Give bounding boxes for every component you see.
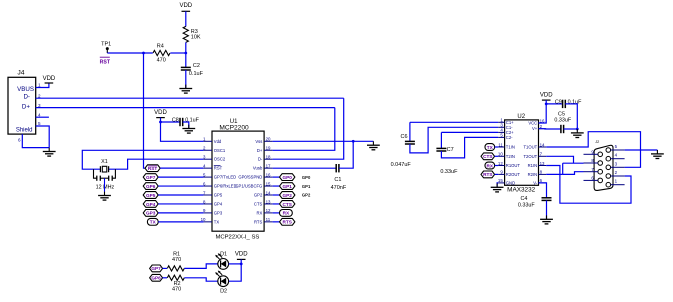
- wire CTS flag to U2: [495, 155, 499, 157]
- wire U2 V+ to C5: [539, 128, 561, 130]
- svg-text:Shield: Shield: [16, 128, 33, 134]
- wire J4 pin1 to VDD: [36, 83, 49, 88]
- op IC U1 MCP2200 body: [212, 119, 264, 241]
- ground at C8: [182, 125, 195, 134]
- net flag RST at U1 pin4: [145, 165, 160, 172]
- wire TX flag to U2: [495, 146, 499, 148]
- wire C6 bottom to U2 C1-: [410, 127, 498, 153]
- capacitor C2: [181, 66, 191, 68]
- svg-text:D-: D-: [258, 157, 263, 162]
- label C6 value: [391, 134, 412, 168]
- net flag GP6 at LEDs: [150, 274, 163, 281]
- wire GP7 to R1: [163, 267, 167, 269]
- net flag RTS at U1 right: [280, 218, 295, 225]
- net label RST (purple): [100, 57, 111, 65]
- svg-text:RTS: RTS: [483, 172, 492, 177]
- svg-text:470nF: 470nF: [331, 185, 347, 191]
- wire T1OUT to DB9 pin3: [546, 132, 640, 168]
- svg-text:OSC1: OSC1: [214, 148, 226, 153]
- svg-text:17: 17: [266, 163, 271, 168]
- svg-text:VCC: VCC: [528, 121, 537, 126]
- U2 pin stubs numbers names left: [498, 118, 521, 186]
- label C7 value: [440, 147, 458, 175]
- wire U1 to GP0 flag: [273, 176, 280, 178]
- svg-text:20: 20: [266, 137, 271, 142]
- wire VDD down to D2: [229, 259, 242, 281]
- svg-text:12: 12: [498, 161, 503, 166]
- wire to DB9 pin7: [563, 172, 584, 175]
- ground at C9/C5: [571, 129, 584, 138]
- svg-text:GP0: GP0: [283, 175, 293, 180]
- ground at C2: [179, 85, 192, 94]
- IC U2 MAX3232 body: [505, 114, 539, 194]
- svg-text:470: 470: [172, 286, 181, 292]
- wire to DB9 pin8: [563, 162, 584, 164]
- svg-text:13: 13: [540, 161, 545, 166]
- wire RX flag to U2: [495, 165, 499, 167]
- svg-text:GP4: GP4: [214, 201, 223, 206]
- svg-text:D1: D1: [220, 251, 227, 257]
- svg-text:0.047uF: 0.047uF: [391, 162, 412, 168]
- svg-text:C5: C5: [558, 111, 565, 117]
- wire GP6 flag to U1: [158, 185, 203, 187]
- wire GP6 to R2: [163, 277, 167, 279]
- VDD power symbol at J4 pin1: [43, 76, 56, 83]
- svg-text:RST: RST: [214, 166, 223, 171]
- svg-text:Vss: Vss: [255, 139, 262, 144]
- svg-text:GND: GND: [506, 180, 515, 185]
- svg-text:C6: C6: [400, 134, 407, 140]
- wire U2 V- to C4: [539, 183, 547, 198]
- wire C9 to ground junction: [565, 104, 577, 129]
- svg-text:J4: J4: [17, 70, 24, 77]
- ground at DB9 pin5: [651, 150, 664, 159]
- wire crystal left bracket: [94, 169, 97, 178]
- svg-text:0.33uF: 0.33uF: [440, 169, 458, 175]
- svg-text:GP3: GP3: [214, 210, 223, 215]
- wire TX flag to U1: [158, 221, 203, 223]
- svg-text:TP1: TP1: [101, 41, 111, 47]
- svg-text:C2: C2: [193, 63, 200, 69]
- wire T2OUT down: [546, 156, 573, 163]
- svg-text:11: 11: [266, 217, 271, 222]
- svg-text:V+: V+: [532, 126, 538, 131]
- wire RTS flag to U2: [495, 173, 499, 175]
- svg-text:6: 6: [18, 137, 21, 142]
- svg-text:GP5: GP5: [214, 193, 223, 198]
- capacitor C7: [436, 147, 446, 149]
- svg-text:Vdd: Vdd: [214, 139, 222, 144]
- svg-text:RST: RST: [100, 59, 111, 65]
- wire U1 to GP1 flag: [273, 185, 280, 187]
- svg-text:GP6/RxLED: GP6/RxLED: [214, 184, 237, 189]
- DB9 left column pins 9-6: [584, 150, 603, 183]
- wire C6 top lead: [409, 122, 411, 141]
- test point TP1: [101, 41, 111, 53]
- svg-text:VBUS: VBUS: [17, 86, 34, 93]
- svg-text:RTS: RTS: [283, 220, 292, 225]
- wire crystal right bracket: [112, 169, 115, 178]
- load capacitor left: [97, 176, 101, 181]
- svg-text:MCP22XX-I_ SS: MCP22XX-I_ SS: [215, 234, 259, 240]
- wire pin8-pin7 tie vertical: [562, 163, 564, 174]
- ground at J4: [43, 148, 56, 157]
- LED D1: [215, 253, 228, 269]
- net flag RTS at U2: [481, 171, 495, 178]
- net flag CTS at U2: [481, 153, 495, 160]
- svg-text:15: 15: [498, 178, 503, 183]
- svg-text:R1OUT: R1OUT: [506, 163, 521, 168]
- svg-text:GP7: GP7: [146, 175, 156, 180]
- load capacitor right: [109, 176, 113, 181]
- svg-text:RX: RX: [487, 163, 494, 168]
- net flag RX at U2: [485, 162, 495, 169]
- capacitor C5: [560, 125, 562, 133]
- label R3 value: [191, 29, 201, 41]
- svg-text:VDD: VDD: [235, 252, 248, 258]
- svg-text:C4: C4: [520, 196, 527, 202]
- svg-text:GP1: GP1: [302, 184, 311, 189]
- wire C2 to ground: [185, 70, 187, 88]
- svg-text:C1: C1: [334, 177, 341, 183]
- wire RST vertical down to RST flag: [144, 53, 147, 168]
- wire GP7 flag to U1: [158, 176, 203, 178]
- VDD power symbol at LEDs: [235, 252, 248, 260]
- LED D2: [215, 271, 228, 287]
- wire D1 to VDD: [229, 263, 242, 265]
- ground at U2 GND: [491, 183, 504, 192]
- U2 pin stubs numbers names right: [523, 118, 546, 185]
- wire C5 to ground junction: [564, 128, 578, 130]
- wire VDD stub: [160, 118, 162, 122]
- wire J4 pin4 stub: [36, 116, 49, 118]
- crystal X1: [100, 159, 108, 172]
- label C2 value: [189, 63, 204, 77]
- junction dot D1/VDD: [240, 263, 243, 266]
- net name labels GP0 GP1 GP2: [302, 175, 311, 198]
- wire C8 to ground: [183, 122, 189, 128]
- label C8 value: [172, 118, 200, 124]
- J4 pin numbers: [18, 83, 41, 143]
- wire C7 to U2 C2+: [441, 131, 498, 133]
- svg-text:0.1uF: 0.1uF: [189, 71, 204, 77]
- svg-text:RST: RST: [148, 166, 158, 171]
- resistor R3: [183, 26, 188, 42]
- ground at U1 Vss: [367, 141, 380, 150]
- wire net D+ long horizontal: [36, 107, 335, 109]
- svg-text:12: 12: [266, 208, 271, 213]
- net flag GP7 at LEDs: [150, 265, 163, 272]
- svg-text:D-: D-: [23, 94, 30, 101]
- connector J4 (USB): [8, 70, 36, 135]
- wire U1 to RX flag: [273, 212, 280, 214]
- svg-text:TX: TX: [487, 145, 494, 150]
- svg-text:CTS: CTS: [483, 154, 492, 159]
- wire U1 to RTS flag: [273, 221, 280, 223]
- label R1 value: [172, 252, 181, 263]
- wire RST flag to U1: [160, 167, 203, 169]
- svg-text:GP2: GP2: [302, 193, 311, 198]
- wire C6 to U2 C1+: [410, 121, 498, 123]
- svg-text:15: 15: [266, 181, 271, 186]
- svg-text:0.33uF: 0.33uF: [518, 203, 535, 209]
- svg-text:11: 11: [498, 142, 503, 147]
- wire crystal ground rail: [100, 177, 108, 179]
- wire R2IN: [546, 173, 563, 175]
- svg-text:R4: R4: [157, 44, 164, 50]
- svg-text:R1IN: R1IN: [528, 163, 538, 168]
- DB9 right column pins 5-1: [606, 144, 625, 187]
- resistor R2: [167, 275, 184, 280]
- net flag CTS at U1 right: [280, 201, 295, 208]
- svg-text:D+: D+: [257, 148, 263, 153]
- svg-text:TX: TX: [150, 220, 157, 225]
- resistor R1: [167, 266, 184, 271]
- wire C4 to ground: [546, 200, 548, 219]
- svg-text:14: 14: [540, 142, 545, 147]
- svg-text:16: 16: [266, 172, 271, 177]
- svg-text:T1IN: T1IN: [506, 145, 515, 150]
- svg-text:VDD: VDD: [154, 110, 167, 116]
- svg-text:GP6: GP6: [146, 184, 156, 189]
- label R4 value: [157, 44, 166, 64]
- label R2 value: [172, 281, 181, 292]
- svg-text:GP1: GP1: [283, 184, 293, 189]
- wire J4 pin6 shield to ground: [22, 134, 49, 148]
- VDD power symbol at C8: [154, 110, 167, 118]
- svg-text:MAX3232: MAX3232: [507, 187, 536, 194]
- wire GP5 flag to U1: [158, 194, 203, 196]
- label C1 value: [331, 177, 347, 191]
- svg-text:U2: U2: [517, 114, 525, 120]
- junction dot TP1 column: [142, 52, 145, 55]
- ground at C4: [540, 215, 553, 224]
- svg-text:GP0/SSPND: GP0/SSPND: [238, 175, 262, 180]
- U1 pin stubs and numbers left (pins 1-10): [201, 137, 212, 223]
- svg-text:Vusb: Vusb: [253, 166, 263, 171]
- svg-text:GP0: GP0: [302, 175, 311, 180]
- svg-text:10: 10: [498, 152, 503, 157]
- net flag GP1 at U1 right: [280, 183, 295, 190]
- wire U2 GND to ground: [497, 183, 498, 187]
- svg-text:CTS: CTS: [254, 201, 263, 206]
- wire J4 pin5 to ground: [36, 126, 50, 148]
- net flag GP5 at U1: [143, 192, 158, 199]
- net flag TX at U2: [485, 144, 495, 151]
- wire R4 to R3/C2 junction: [170, 52, 186, 54]
- svg-text:T1OUT: T1OUT: [523, 145, 537, 150]
- wire R3 to C2: [185, 42, 187, 67]
- wire VDD to U1 pin1: [161, 122, 204, 141]
- capacitor C9: [562, 100, 564, 108]
- svg-text:0.33uF: 0.33uF: [554, 118, 571, 124]
- svg-text:GP5: GP5: [146, 193, 156, 198]
- svg-text:VDD: VDD: [540, 92, 553, 98]
- wire U1 OSC2 to crystal: [109, 159, 204, 169]
- svg-text:0.1uF: 0.1uF: [185, 118, 199, 124]
- net flag GP4 at U1: [143, 201, 158, 208]
- svg-text:C7: C7: [447, 147, 454, 153]
- svg-text:GP6: GP6: [151, 276, 161, 281]
- svg-text:TX: TX: [214, 219, 220, 224]
- net flag GP7 at U1: [143, 174, 158, 181]
- wire R1IN to DB9 pin2: [546, 166, 631, 204]
- net flag GP3 at U1: [143, 210, 158, 217]
- U1 pin names: [214, 139, 263, 225]
- svg-text:GP4: GP4: [146, 202, 156, 207]
- capacitor C8: [179, 118, 181, 126]
- svg-text:VDD: VDD: [43, 76, 56, 82]
- wire VDD to C9: [546, 103, 562, 105]
- svg-text:VDD: VDD: [179, 3, 192, 9]
- wire VDD to R3: [185, 11, 187, 26]
- wire U1 Vusb to C1: [273, 167, 337, 169]
- junction dot VDD/C9: [545, 103, 548, 106]
- svg-text:19: 19: [266, 146, 271, 151]
- label C4 value: [518, 196, 535, 209]
- svg-text:470: 470: [172, 257, 181, 263]
- U1 pin stubs and numbers right (pins 20-11): [264, 137, 273, 223]
- wire VDD to C8: [161, 121, 181, 123]
- wire R1 to D1: [184, 264, 218, 269]
- label C5 value: [554, 111, 571, 123]
- VDD power symbol top: [179, 3, 192, 11]
- wire R2 to D2: [184, 278, 218, 281]
- wire D- down to U1 pin18: [273, 98, 344, 159]
- junction dot C9/C5 ground: [576, 128, 579, 131]
- svg-text:GP2: GP2: [254, 193, 263, 198]
- connector J2 DB9 body: [594, 140, 613, 190]
- svg-text:V-: V-: [533, 180, 538, 185]
- svg-text:GP2: GP2: [283, 193, 293, 198]
- svg-text:J2: J2: [595, 140, 599, 144]
- wire GP3 flag to U1: [158, 212, 203, 214]
- capacitor C4: [542, 197, 552, 199]
- svg-text:OSC2: OSC2: [214, 157, 226, 162]
- wire GP4 flag to U1: [158, 203, 203, 205]
- wire C7 top lead: [440, 132, 442, 148]
- wire DB9 pin5 to ground: [625, 149, 658, 151]
- net flag GP6 at U1: [143, 183, 158, 190]
- resistor R4: [153, 50, 170, 55]
- net flag TX at U1 pin10: [147, 218, 158, 225]
- wire U1 to CTS flag: [273, 203, 280, 205]
- label C9 value: [555, 100, 582, 106]
- svg-text:T2IN: T2IN: [506, 154, 515, 159]
- svg-text:GP1/USBCFG: GP1/USBCFG: [235, 184, 262, 189]
- svg-text:MCP2200: MCP2200: [219, 124, 249, 131]
- svg-text:R2IN: R2IN: [528, 172, 538, 177]
- wire C7 bottom to U2 C2-: [441, 137, 498, 158]
- svg-text:D2: D2: [220, 288, 227, 294]
- wire U1 Vss to ground: [273, 140, 374, 142]
- VDD power symbol at U2: [540, 92, 553, 100]
- ground at X1: [98, 192, 111, 201]
- svg-text:C9: C9: [555, 100, 562, 106]
- svg-text:RX: RX: [283, 211, 290, 216]
- svg-text:14: 14: [266, 190, 271, 195]
- svg-text:18: 18: [266, 155, 271, 160]
- capacitor C6: [405, 140, 415, 142]
- svg-text:GP7/TxLED: GP7/TxLED: [214, 175, 236, 180]
- svg-text:RTS: RTS: [254, 219, 263, 224]
- svg-text:0.1uF: 0.1uF: [568, 100, 582, 106]
- svg-text:13: 13: [266, 199, 271, 204]
- svg-text:470: 470: [157, 58, 166, 64]
- wire C1 up to Vss net: [339, 141, 353, 168]
- wire net D- long horizontal: [36, 97, 344, 99]
- svg-text:CTS: CTS: [283, 202, 292, 207]
- wire crystal center to ground: [104, 178, 106, 192]
- svg-text:R2OUT: R2OUT: [506, 172, 521, 177]
- svg-text:T2OUT: T2OUT: [523, 154, 537, 159]
- net flag RX at U1 right: [280, 210, 293, 217]
- junction dot R4/R3: [184, 52, 187, 55]
- svg-text:C8: C8: [172, 118, 179, 124]
- svg-text:10K: 10K: [191, 35, 201, 41]
- svg-text:GP7: GP7: [151, 266, 161, 271]
- capacitor C1: [335, 164, 337, 172]
- svg-text:D+: D+: [22, 104, 30, 111]
- svg-text:GP3: GP3: [146, 211, 156, 216]
- svg-text:X1: X1: [101, 159, 108, 165]
- wire TP1 to R4: [107, 52, 153, 54]
- svg-text:RX: RX: [256, 210, 262, 215]
- net flag GP0 at U1 right: [280, 174, 295, 181]
- junction dot Vusb/Vss: [352, 140, 355, 143]
- wire U1 OSC1 to crystal: [82, 150, 203, 169]
- wire U1 to GP2 flag: [273, 194, 280, 196]
- svg-text:C2-: C2-: [506, 135, 513, 140]
- wire VDD to U2 VCC: [539, 100, 547, 123]
- wire D+ down to U1 pin19: [273, 108, 335, 151]
- net flag GP2 at U1 right: [280, 192, 295, 199]
- junction dot VDD/C8: [159, 121, 162, 124]
